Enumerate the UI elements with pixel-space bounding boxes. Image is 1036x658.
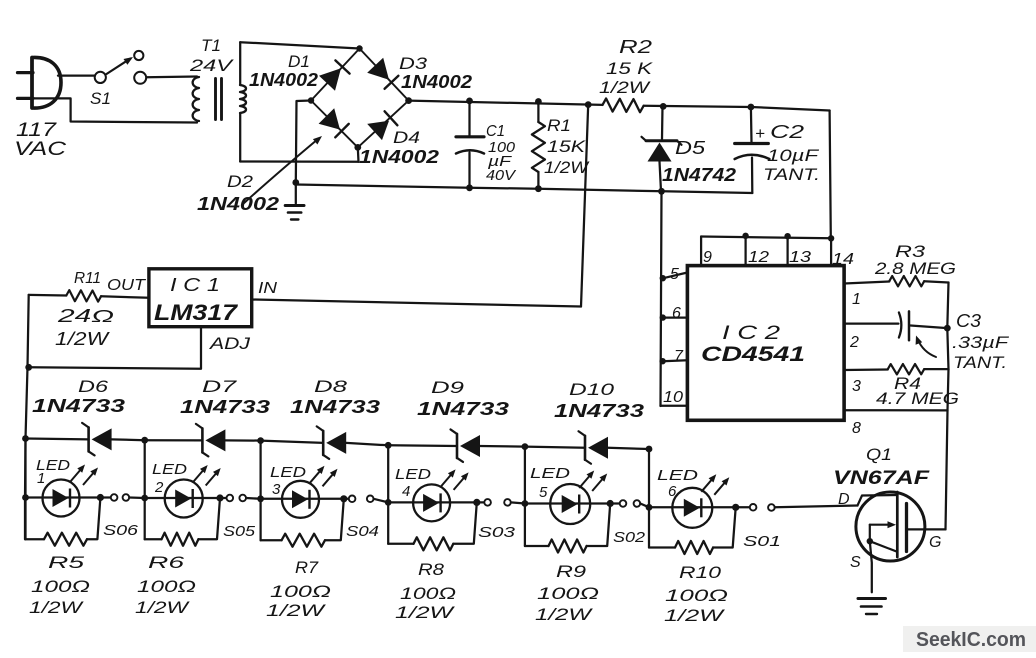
- svg-text:9: 9: [703, 249, 712, 266]
- node bridge left corner: [308, 97, 314, 103]
- svg-text:1N4733: 1N4733: [180, 397, 270, 417]
- node bridge right corner: [405, 97, 412, 104]
- svg-text:6: 6: [672, 305, 681, 322]
- pin 9: [700, 237, 702, 266]
- socket SO6 contact b: [123, 494, 130, 501]
- node cell 5 row-right: [607, 500, 614, 507]
- wire LED 5 row: [525, 502, 610, 504]
- node cell 5 row-left: [522, 500, 529, 507]
- resistor R9 100ohm: [549, 540, 587, 553]
- wire zener rail seg 5: [525, 447, 585, 448]
- node cell 4 row-left: [385, 499, 392, 506]
- bridge diamond edges: [311, 49, 360, 101]
- wire R6 up: [198, 498, 220, 539]
- wire to ground: [295, 183, 297, 204]
- wire cell 4 left rail: [387, 445, 389, 544]
- svg-text:1/2W: 1/2W: [535, 605, 594, 624]
- svg-text:S05: S05: [223, 523, 256, 540]
- wire ADJ: [29, 327, 201, 369]
- diode D3 1N4002: [367, 58, 389, 80]
- capacitor C2 10uF TANT: [750, 107, 753, 142]
- zener diode D9 1N4733: [451, 429, 481, 462]
- wire cell 2 left rail: [144, 440, 146, 539]
- LED 3: [282, 469, 335, 518]
- svg-text:1N4002: 1N4002: [359, 147, 439, 167]
- wire socket to next cell: [374, 499, 389, 503]
- wire LED 2 row: [145, 497, 220, 499]
- transformer T1 secondary coil: [240, 85, 246, 113]
- Q1 source node: [867, 538, 873, 544]
- zener diode D5 1N4742: [661, 106, 664, 139]
- svg-text:1/2W: 1/2W: [266, 601, 327, 620]
- wire to R7: [261, 539, 282, 541]
- svg-text:100Ω: 100Ω: [400, 584, 456, 603]
- node R1 bottom: [535, 185, 542, 192]
- node ground junction: [292, 179, 299, 186]
- svg-text:.33µF: .33µF: [952, 333, 1010, 352]
- svg-text:D9: D9: [431, 378, 465, 397]
- svg-text:R5: R5: [48, 553, 85, 572]
- svg-text:LED: LED: [395, 466, 431, 483]
- capacitor C1 100uF 40V: [468, 101, 470, 135]
- svg-text:1N4002: 1N4002: [249, 70, 318, 90]
- wire top rail to bridge top corner: [240, 42, 359, 48]
- wire zener rail seg 1: [26, 437, 89, 440]
- wire R7 up: [325, 499, 344, 540]
- svg-text:2.8 MEG: 2.8 MEG: [874, 259, 956, 278]
- node C1 bottom: [466, 184, 473, 191]
- LED 5: [550, 474, 604, 524]
- socket SO5 contact a: [227, 495, 234, 502]
- svg-text:100Ω: 100Ω: [31, 577, 90, 596]
- node cell 6 row-right: [732, 504, 739, 511]
- node cell 3 row-right: [340, 495, 347, 502]
- socket SO3 contact a: [484, 499, 491, 506]
- resistor R8 100ohm: [414, 537, 454, 550]
- svg-text:D7: D7: [202, 377, 237, 396]
- svg-text:117: 117: [16, 120, 58, 141]
- svg-text:3: 3: [852, 378, 861, 395]
- svg-text:S03: S03: [478, 524, 516, 541]
- svg-text:1/2W: 1/2W: [599, 78, 651, 97]
- wire R8 up: [453, 502, 477, 543]
- svg-text:24Ω: 24Ω: [56, 306, 114, 326]
- svg-text:I C 1: I C 1: [170, 275, 220, 295]
- svg-text:5: 5: [539, 484, 548, 501]
- socket SO2 contact b: [634, 500, 641, 507]
- svg-text:CD4541: CD4541: [701, 343, 805, 366]
- svg-text:S01: S01: [743, 533, 781, 550]
- svg-text:12: 12: [748, 249, 769, 266]
- svg-text:G: G: [929, 534, 941, 551]
- svg-text:1/2W: 1/2W: [29, 598, 85, 617]
- wire LED 1 row: [26, 496, 101, 498]
- svg-text:LED: LED: [152, 461, 187, 478]
- wire plug lower to T1: [33, 98, 197, 122]
- svg-text:1N4002: 1N4002: [401, 72, 472, 92]
- wire to R10: [649, 546, 675, 548]
- LED 2: [165, 469, 218, 518]
- AC plug 117 VAC: [32, 57, 61, 108]
- svg-text:3: 3: [272, 481, 281, 498]
- svg-text:OUT: OUT: [107, 277, 146, 294]
- svg-text:D1: D1: [288, 52, 310, 71]
- wire zener rail seg 4: [388, 444, 457, 447]
- plug prong upper: [18, 71, 34, 74]
- node rail cell 4: [385, 442, 392, 449]
- svg-text:+: +: [755, 124, 765, 143]
- resistor R1 15K: [537, 102, 539, 123]
- node C1 top: [466, 98, 473, 105]
- wire to socket: [610, 502, 619, 504]
- wire cell 6 left rail: [648, 449, 650, 548]
- svg-text:1/2W: 1/2W: [395, 603, 456, 622]
- wire Q1 source to ground: [870, 541, 872, 592]
- svg-text:R7: R7: [295, 558, 319, 577]
- wire to socket: [344, 498, 349, 500]
- Q1 gate bar: [905, 504, 908, 552]
- node rail cell 3: [257, 437, 264, 444]
- svg-text:S02: S02: [613, 529, 646, 546]
- node rail cell 1: [22, 435, 29, 442]
- svg-text:C3: C3: [956, 311, 981, 331]
- zener diode D8 1N4733: [317, 426, 347, 459]
- pin 7: [663, 360, 688, 361]
- LED 4: [413, 473, 466, 522]
- wire pin 8: [844, 409, 947, 411]
- svg-text:R10: R10: [679, 563, 722, 582]
- svg-text:D: D: [838, 491, 850, 508]
- LED 1: [43, 468, 96, 517]
- pin 5: [663, 273, 687, 279]
- transformer T1 core: [214, 79, 217, 120]
- svg-text:1N4742: 1N4742: [662, 165, 736, 185]
- wire bridge left corner down: [296, 101, 311, 183]
- wire LED 6 row: [649, 506, 736, 508]
- node cell 2 row-left: [141, 495, 148, 502]
- svg-text:100Ω: 100Ω: [665, 586, 728, 605]
- arrow leader C3: [918, 339, 937, 357]
- resistor R5 100ohm: [44, 533, 87, 546]
- resistor R2 15K: [603, 99, 644, 113]
- svg-text:1N4733: 1N4733: [290, 397, 380, 417]
- zener diode D7 1N4733: [196, 424, 226, 457]
- node rail cell 5: [522, 443, 529, 450]
- wire left rail: [25, 295, 29, 539]
- IC2 top pin bus: [701, 237, 831, 239]
- svg-text:S: S: [850, 554, 861, 571]
- wire secondary top: [239, 42, 241, 85]
- socket SO3 contact b: [504, 499, 511, 506]
- socket SO4 contact b: [367, 496, 374, 503]
- arrow leader D2: [243, 139, 318, 204]
- capacitor C3 .33uF TANT: [844, 322, 898, 324]
- switch S1: [95, 72, 106, 83]
- ground symbol under Q1: [858, 597, 886, 600]
- svg-text:1/2W: 1/2W: [55, 329, 111, 349]
- svg-text:1/2W: 1/2W: [664, 606, 726, 625]
- wire zener rail seg 2: [145, 439, 203, 441]
- svg-text:LED: LED: [657, 467, 698, 484]
- svg-text:40V: 40V: [486, 167, 517, 184]
- wire to socket: [477, 501, 484, 503]
- wire LED 3 row: [261, 498, 344, 500]
- node R1 top: [535, 98, 542, 105]
- resistor R11 24ohm: [101, 296, 149, 298]
- svg-text:R2: R2: [619, 37, 652, 57]
- diode D4 1N4002: [367, 121, 389, 140]
- svg-text:5: 5: [670, 266, 679, 283]
- svg-text:1/2W: 1/2W: [135, 598, 191, 617]
- svg-text:C1: C1: [486, 123, 505, 140]
- svg-text:10µF: 10µF: [767, 146, 820, 165]
- node cell 1 row-right: [97, 494, 104, 501]
- svg-text:1N4002: 1N4002: [197, 194, 279, 214]
- node cell 3 row-left: [257, 495, 264, 502]
- node cell 2 row-right: [216, 494, 223, 501]
- svg-text:D6: D6: [78, 377, 109, 396]
- svg-text:VAC: VAC: [14, 139, 66, 160]
- wire socket to next cell: [640, 504, 649, 508]
- svg-text:R6: R6: [148, 553, 185, 572]
- node ADJ-left rail: [25, 364, 32, 371]
- svg-text:6: 6: [668, 483, 677, 500]
- pin 14: [830, 238, 832, 265]
- socket SO6 contact a: [111, 494, 118, 501]
- svg-text:S1: S1: [90, 89, 111, 108]
- IC2 CD4541 box: [687, 266, 844, 421]
- node D5 bottom: [658, 188, 665, 195]
- svg-text:100Ω: 100Ω: [270, 582, 331, 601]
- wire to socket: [220, 497, 226, 499]
- wire Q1 gate: [907, 528, 946, 530]
- svg-text:13: 13: [789, 249, 811, 266]
- wire R10 up: [713, 507, 736, 547]
- resistor R6 100ohm: [162, 533, 199, 546]
- LED 6: [672, 478, 726, 528]
- ground symbol under bridge: [285, 204, 304, 207]
- svg-text:1/2W: 1/2W: [544, 158, 590, 177]
- svg-text:S06: S06: [103, 522, 139, 539]
- wire ground rail: [296, 185, 753, 194]
- node cell 4 row-right: [473, 499, 480, 506]
- wire zener rail seg 3: [261, 441, 324, 443]
- Q1 arrow line: [870, 524, 892, 526]
- svg-text:10: 10: [663, 389, 683, 406]
- node IN tap: [585, 101, 592, 108]
- wire top rail: [409, 101, 603, 105]
- svg-text:D4: D4: [393, 128, 420, 147]
- svg-text:2: 2: [849, 334, 859, 351]
- svg-text:T1: T1: [201, 36, 221, 55]
- svg-text:1N4733: 1N4733: [32, 396, 125, 416]
- svg-text:TANT.: TANT.: [953, 353, 1007, 372]
- svg-text:1N4733: 1N4733: [554, 401, 644, 421]
- resistor R4 4.7MEG: [844, 368, 888, 371]
- wire socket to next cell: [129, 496, 144, 499]
- right vertical net: R3/C3/R4/pin8/gate: [946, 283, 949, 530]
- wire R9 up: [587, 504, 611, 547]
- svg-text:7: 7: [674, 348, 684, 365]
- svg-text:100Ω: 100Ω: [537, 584, 599, 603]
- svg-text:15 K: 15 K: [606, 59, 653, 78]
- node C3 right: [944, 325, 951, 332]
- svg-text:14: 14: [832, 251, 854, 268]
- plug prong lower: [18, 97, 34, 100]
- wire to bridge bottom corner: [240, 160, 358, 163]
- node bridge bottom corner: [354, 144, 361, 151]
- svg-text:4: 4: [402, 483, 410, 500]
- svg-text:Q1: Q1: [866, 445, 892, 464]
- socket SO2 contact a: [620, 500, 627, 507]
- zener diode D6 1N4733: [82, 423, 112, 456]
- node bridge top corner: [356, 45, 362, 51]
- transformer T1 24V primary coil: [193, 77, 199, 121]
- svg-text:1N4733: 1N4733: [417, 399, 509, 419]
- svg-text:ADJ: ADJ: [209, 334, 251, 353]
- wire S1 to T1 primary: [147, 75, 198, 78]
- Q1 channel bar: [896, 492, 899, 557]
- wire to R5: [26, 538, 45, 540]
- wire cell 5 left rail: [524, 447, 526, 546]
- svg-text:D10: D10: [569, 380, 615, 399]
- socket SO4 contact a: [349, 496, 356, 503]
- wire secondary bottom: [239, 113, 241, 162]
- socket SO5 contact b: [239, 495, 246, 502]
- wire to socket: [736, 506, 750, 508]
- wire up to bridge bottom corner: [357, 147, 360, 161]
- wire to right rail: [751, 107, 830, 111]
- wire plug to S1: [58, 74, 95, 76]
- svg-text:D5: D5: [675, 138, 706, 158]
- svg-text:I C 2: I C 2: [722, 323, 781, 344]
- wire socket to next cell: [511, 502, 525, 503]
- node cell 6 row-left: [646, 504, 653, 511]
- svg-text:1: 1: [852, 291, 861, 308]
- svg-text:R8: R8: [418, 560, 445, 579]
- svg-text:VN67AF: VN67AF: [833, 468, 931, 489]
- svg-text:S04: S04: [346, 523, 379, 540]
- wire R2 to C2: [644, 106, 751, 107]
- socket SO1 contact a: [750, 504, 757, 511]
- regulator IC1 LM317: [149, 269, 252, 327]
- pin 10: [661, 405, 688, 407]
- Q1 drain internal: [858, 495, 898, 506]
- wire LED 4 row: [388, 501, 477, 503]
- wire to R8: [388, 543, 413, 545]
- wire cell 1 left rail: [24, 439, 26, 540]
- svg-text:TANT.: TANT.: [763, 165, 820, 184]
- wire to R9: [525, 545, 549, 547]
- diode D2 1N4002: [319, 108, 340, 129]
- svg-text:R11: R11: [74, 270, 101, 287]
- svg-text:LED: LED: [270, 464, 306, 481]
- node cell 1 row-left: [22, 494, 29, 501]
- IC2 left pins 5 6 7 10: [661, 191, 662, 406]
- svg-text:15K: 15K: [547, 137, 586, 156]
- svg-text:SeekIC.com: SeekIC.com: [916, 629, 1026, 651]
- resistor R7 100ohm: [282, 534, 325, 547]
- svg-text:2: 2: [154, 479, 164, 496]
- svg-text:100Ω: 100Ω: [137, 577, 196, 596]
- node C2 top: [748, 104, 755, 111]
- transistor Q1 VN67AF: [856, 492, 925, 561]
- svg-text:D8: D8: [314, 377, 348, 396]
- svg-text:LM317: LM317: [154, 300, 239, 325]
- svg-text:R9: R9: [556, 562, 587, 581]
- svg-text:LED: LED: [530, 465, 570, 482]
- svg-text:24V: 24V: [189, 56, 235, 75]
- resistor R10 100ohm: [675, 541, 713, 554]
- resistor R3 2.8MEG: [844, 282, 889, 284]
- wire socket to next cell: [246, 497, 261, 500]
- pin 12: [744, 235, 746, 266]
- svg-text:C2: C2: [770, 122, 804, 142]
- pin 13: [786, 236, 788, 266]
- svg-text:R1: R1: [547, 116, 571, 135]
- svg-text:1: 1: [37, 470, 45, 487]
- wire cell 3 left rail: [259, 441, 261, 541]
- node rail cell 6: [646, 446, 653, 453]
- watermark SeekIC.com: [903, 626, 1036, 652]
- wire right rail down to pin 14: [830, 111, 831, 239]
- svg-text:8: 8: [852, 420, 861, 437]
- svg-text:D3: D3: [399, 54, 428, 73]
- diode D1 1N4002: [319, 68, 341, 91]
- node D5 top: [660, 103, 667, 110]
- socket SO1 contact b: [768, 504, 775, 511]
- wire socket to next cell: [775, 506, 858, 508]
- wire to socket: [100, 496, 110, 498]
- svg-text:D2: D2: [227, 172, 254, 191]
- wire R5 up: [87, 498, 100, 540]
- wire IN to raw DC: [252, 300, 581, 307]
- pin 6: [663, 316, 687, 318]
- node rail cell 2: [141, 437, 148, 444]
- svg-text:IN: IN: [258, 280, 278, 297]
- wire to R6: [145, 538, 162, 540]
- zener diode D10 1N4733: [579, 431, 609, 464]
